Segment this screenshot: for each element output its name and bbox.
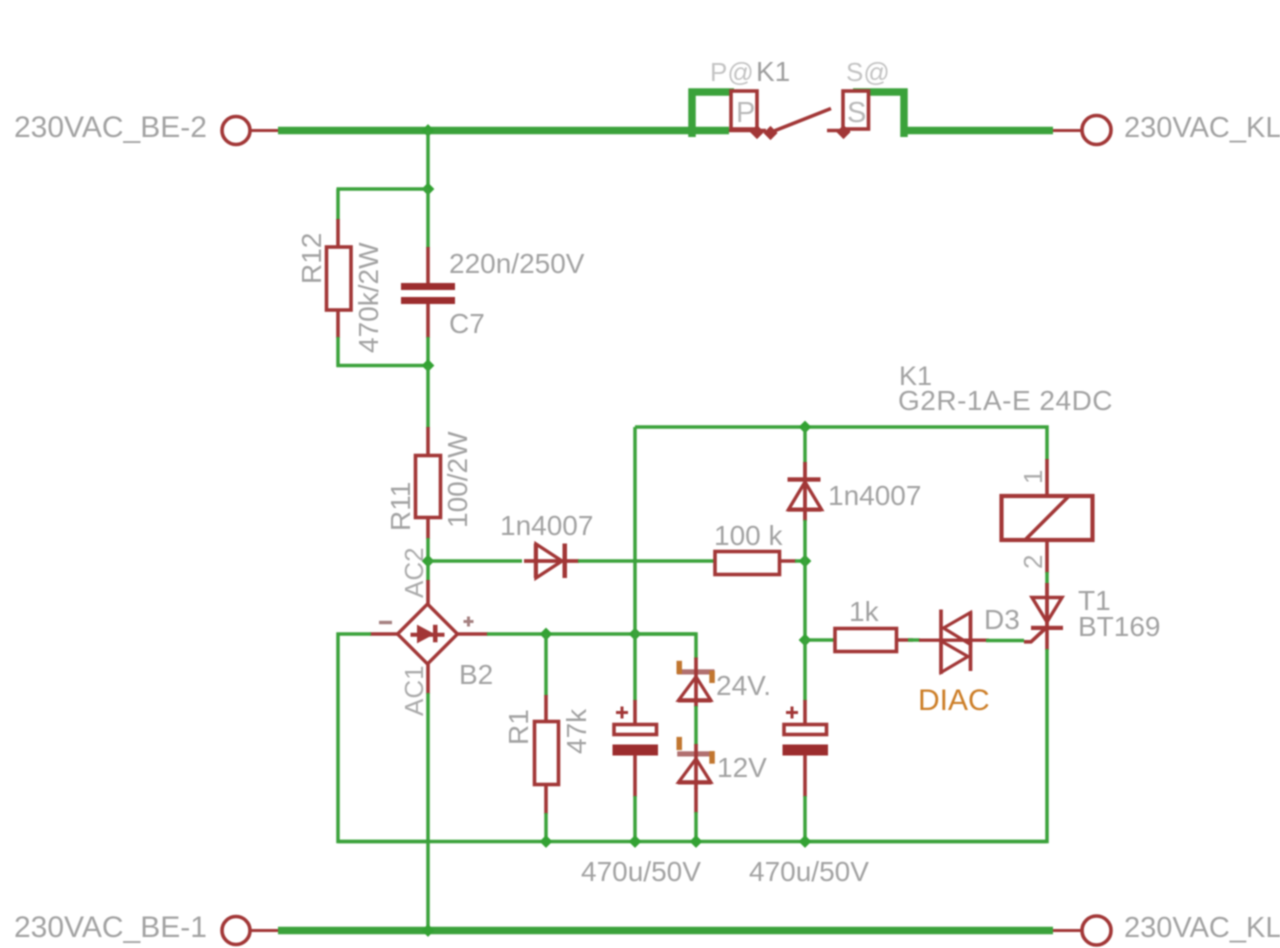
wire bridge top [426, 561, 430, 581]
wire left loop [338, 634, 428, 842]
wire between zeners [694, 706, 698, 745]
terminal 230VAC_KL-1 [1082, 916, 1111, 945]
capacitor C7 plate 1 [401, 283, 455, 290]
wire stub KL-1 [1053, 929, 1081, 932]
zener 12V orange mark right [709, 751, 715, 764]
pin 100k right [780, 559, 797, 563]
svg-text:47k: 47k [561, 708, 592, 754]
pin C7 bottom [426, 304, 430, 338]
wire zener branch top [635, 634, 696, 659]
svg-text:24V.: 24V. [716, 670, 771, 701]
pin R1 bottom [544, 784, 548, 814]
contact S dot [836, 125, 850, 139]
junction top rail [422, 124, 435, 137]
wire cap2 top [803, 640, 807, 701]
wire cap1 bottom [633, 796, 637, 842]
wire R1 bottom [544, 813, 548, 842]
capacitor 470u/50V no.2 top plate [784, 725, 827, 735]
junction R1 bottom [540, 835, 553, 848]
wire top rail right (thick) [906, 127, 1053, 135]
contact pivot dot [750, 125, 764, 139]
zener diode 24V [677, 658, 714, 708]
svg-text:2: 2 [1018, 555, 1048, 569]
wire diode vertical to node [803, 520, 807, 561]
contact pivot dot 2 [763, 126, 777, 140]
pin cap2 bottom [803, 755, 807, 797]
wire node to 1k junction [803, 561, 807, 640]
thyristor T1 [1031, 583, 1063, 630]
svg-text:470k/2W: 470k/2W [353, 242, 384, 353]
svg-text:R12: R12 [296, 233, 327, 284]
wire top rail left (thick) [278, 127, 729, 135]
resistor 1k [835, 629, 897, 652]
pin coil 1 [1045, 459, 1049, 497]
svg-text:C7: C7 [449, 308, 485, 339]
junction R1 top [540, 628, 553, 641]
svg-text:230VAC_KL-1: 230VAC_KL-1 [1124, 912, 1280, 944]
wire R12 branch top [337, 187, 429, 191]
svg-text:B2: B2 [459, 659, 493, 690]
svg-text:R1: R1 [503, 709, 534, 745]
svg-text:220n/250V: 220n/250V [449, 248, 585, 279]
capacitor 470u/50V no.1 top plate [614, 725, 657, 735]
wire R12 lower vertical [336, 337, 340, 367]
capacitor 470u/50V no.2 plus mark [786, 707, 798, 719]
junction zener bottom [690, 835, 703, 848]
pin C7 top [426, 247, 430, 284]
capacitor C7 plate 2 [401, 297, 455, 304]
wire 1k left [805, 638, 836, 642]
junction R12/C7 top [422, 183, 435, 196]
wire R1 top [544, 634, 548, 696]
pin bridge plus [457, 632, 489, 636]
junction 100k/diode node [799, 555, 812, 568]
pin zener 12V bottom [694, 788, 698, 813]
svg-text:R11: R11 [385, 482, 416, 531]
svg-text:P: P [736, 97, 755, 129]
pin R11 top [426, 427, 430, 457]
svg-text:100/2W: 100/2W [442, 431, 473, 528]
pin thyristor cathode [1045, 630, 1049, 650]
svg-text:230VAC_KL-2: 230VAC_KL-2 [1124, 112, 1280, 144]
terminal 230VAC_BE-2 [222, 117, 250, 145]
junction cap1 bottom [629, 835, 642, 848]
wire cap2 bottom [803, 796, 807, 842]
diac D3 [919, 610, 989, 675]
svg-text:AC2: AC2 [399, 547, 429, 598]
capacitor 470u/50V no.2 bottom plate [783, 745, 829, 756]
resistor R1 [535, 722, 559, 785]
wire diode to 100k [578, 559, 716, 563]
svg-text:470u/50V: 470u/50V [749, 856, 869, 887]
pin R11 bottom [426, 517, 430, 539]
relay contact pin wire P [729, 129, 766, 132]
wire diode vertical top [803, 427, 807, 463]
wire stub BE-2 [251, 129, 279, 132]
contact blade [769, 109, 831, 134]
wire diode row left [428, 559, 522, 563]
svg-text:12V: 12V [717, 752, 767, 783]
wire diac to gate [986, 639, 1024, 643]
junction diode 1n4007 vertical top [799, 421, 812, 434]
junction 1k node [799, 634, 812, 647]
wire coil to thyristor [1045, 572, 1049, 584]
pin cap2 top [803, 700, 807, 725]
diode 1n4007 horizontal [524, 544, 579, 579]
bridge inner diode [411, 625, 445, 643]
diode 1n4007 vertical [788, 462, 822, 521]
junction cap2 bottom [799, 835, 812, 848]
wire R11 to node [426, 538, 430, 561]
capacitor 470u/50V no.1 plus mark [616, 707, 628, 719]
svg-text:BT169: BT169 [1078, 611, 1161, 642]
svg-text:D3: D3 [984, 604, 1020, 635]
svg-text:1n4007: 1n4007 [500, 510, 593, 541]
capacitor 470u/50V no.1 bottom plate [613, 745, 659, 756]
wire top rail K1 coil [635, 427, 1047, 460]
wire mid vertical (top rail to DC rail) [633, 427, 637, 634]
pin bridge AC2 [426, 580, 430, 605]
wire drop from top rail [426, 131, 430, 190]
terminal 230VAC_BE-1 [222, 917, 250, 945]
resistor R11 [416, 456, 441, 518]
wire cap1 top [633, 634, 637, 701]
bridge minus mark [379, 621, 392, 624]
svg-text:S@: S@ [846, 57, 890, 87]
pin R1 top [544, 695, 548, 723]
wire to R11 [426, 366, 430, 429]
wire R12 branch bottom [337, 364, 429, 368]
pin R12 bottom [336, 310, 340, 338]
bridge rectifier B2 [398, 604, 458, 664]
relay coil K1 [1002, 496, 1093, 540]
resistor 100k [715, 552, 780, 575]
bottom DC rail [338, 840, 1047, 844]
wire zener bottom [694, 812, 698, 842]
relay coil diagonal [1026, 497, 1068, 539]
pin bridge minus [370, 632, 399, 636]
relay contact K1: S terminal box [843, 91, 869, 129]
terminal 230VAC_KL-2 [1082, 116, 1111, 145]
resistor R12 [327, 247, 352, 310]
thyristor gate wire [1024, 628, 1047, 642]
svg-text:AC1: AC1 [399, 665, 429, 716]
wire 1k to diac [908, 638, 920, 642]
bridge plus mark [464, 617, 474, 627]
zener 12V orange mark left [677, 737, 683, 750]
svg-text:230VAC_BE-1: 230VAC_BE-1 [14, 911, 207, 944]
relay contact K1: P side bump wire [692, 92, 734, 137]
svg-text:100 k: 100 k [714, 520, 783, 551]
junction R12/C7 bottom [422, 359, 435, 372]
wire C7 top [426, 189, 430, 248]
junction bridge AC1 to BE-1 [422, 924, 435, 937]
wire 100k to node [795, 559, 805, 563]
relay contact pin wire S [827, 129, 850, 132]
wire stub BE-1 [251, 929, 279, 932]
svg-text:G2R-1A-E 24DC: G2R-1A-E 24DC [898, 385, 1113, 416]
bottom AC wire (thick) [278, 927, 1053, 935]
svg-text:S: S [847, 97, 866, 129]
zener diode 12V [677, 744, 714, 789]
junction C-470u-1 top [629, 628, 642, 641]
svg-text:230VAC_BE-2: 230VAC_BE-2 [14, 111, 207, 144]
pin bridge AC1 [426, 663, 430, 694]
pin R12 top [336, 219, 340, 248]
wire DC plus rail [487, 632, 696, 636]
pin cap1 top [633, 700, 637, 725]
junction DC+ node [422, 555, 435, 568]
wire stub KL-2 [1053, 129, 1081, 132]
svg-text:1n4007: 1n4007 [828, 480, 921, 511]
svg-text:K1: K1 [756, 56, 790, 87]
svg-text:1k: 1k [849, 596, 880, 627]
wire C7 bottom [426, 337, 430, 366]
svg-text:P@: P@ [710, 57, 754, 87]
wire bridge bottom to BE-1 [426, 693, 430, 931]
pin coil 2 [1045, 540, 1049, 573]
svg-text:DIAC: DIAC [918, 684, 990, 717]
svg-text:1: 1 [1018, 470, 1048, 484]
wire R12 upper vertical [336, 189, 340, 220]
wire thyristor to bottom rail [805, 649, 1047, 842]
relay contact K1: P terminal box [731, 91, 757, 129]
zener 24V orange mark left [677, 661, 683, 674]
pin cap1 bottom [633, 755, 637, 797]
pin 1k right [897, 638, 914, 642]
zener 24V orange mark right [709, 671, 715, 683]
relay contact K1: S side bump wire [853, 92, 904, 137]
svg-text:470u/50V: 470u/50V [581, 856, 701, 887]
